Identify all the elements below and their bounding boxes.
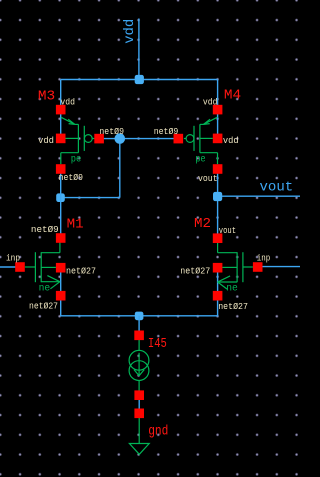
svg-text:pe: pe — [195, 155, 206, 166]
pin I45 top — [134, 331, 144, 341]
svg-text:vdd: vdd — [122, 19, 138, 44]
junction net09 drain — [56, 193, 65, 202]
pin M4 drain — [213, 164, 223, 174]
svg-text:netØ9: netØ9 — [31, 225, 59, 235]
pin I45 bottom — [134, 390, 144, 400]
svg-text:netØ27: netØ27 — [180, 266, 210, 276]
svg-text:vdd: vdd — [203, 98, 218, 108]
svg-text:inp: inp — [6, 253, 20, 263]
pin M1 gate — [15, 262, 25, 272]
svg-text:vdd: vdd — [223, 136, 239, 146]
wire tail net027 — [61, 296, 218, 316]
transistor M1 (nmos) — [25, 242, 60, 288]
pin M2 bulk — [213, 263, 223, 273]
wire M4 drain to M2 drain — [217, 169, 219, 238]
pin M1 drain — [56, 233, 66, 243]
wire tail to I45 — [138, 316, 140, 331]
svg-text:gnd: gnd — [148, 424, 168, 440]
svg-text:ne: ne — [39, 284, 51, 295]
wire inp left — [0, 266, 20, 268]
svg-text:vdd: vdd — [60, 98, 75, 108]
svg-text:netØ27: netØ27 — [66, 266, 96, 276]
pin M2 gate — [253, 262, 263, 272]
svg-text:M2: M2 — [194, 216, 211, 232]
svg-text:I45: I45 — [148, 336, 167, 352]
pin M2 drain — [213, 233, 223, 243]
svg-text:netØ9: netØ9 — [99, 127, 124, 137]
pin M3 gate — [94, 134, 104, 144]
current source I45 — [129, 340, 149, 391]
transistor M2 (nmos) — [218, 243, 253, 289]
wire net09 feedback vertical — [119, 139, 121, 198]
junction tail — [135, 312, 144, 321]
wire vdd drop right — [217, 80, 219, 139]
wire vdd drop left — [60, 80, 62, 139]
wire vdd rail — [61, 79, 218, 81]
svg-text:inp: inp — [257, 253, 271, 263]
svg-text:M3: M3 — [38, 89, 55, 105]
wire gate net09 — [99, 138, 178, 140]
svg-text:vout: vout — [260, 180, 294, 196]
svg-text:vdd: vdd — [38, 136, 54, 146]
svg-text:M4: M4 — [224, 88, 241, 104]
svg-text:netØ9: netØ9 — [59, 173, 83, 183]
wire net09 feedback horizontal — [61, 197, 120, 199]
svg-text:M1: M1 — [67, 216, 84, 232]
svg-text:netØ27: netØ27 — [29, 302, 58, 312]
wire vout — [218, 195, 300, 197]
wire M1 bulk to source — [60, 268, 62, 296]
svg-text:pe: pe — [71, 155, 82, 166]
pin M1 bulk — [56, 263, 66, 273]
wire vdd stem — [138, 19, 140, 80]
pin M1 source — [56, 291, 66, 301]
wire M3 drain to M1 drain — [60, 169, 62, 238]
pin gnd — [134, 409, 144, 419]
ground symbol — [129, 417, 149, 454]
pin M3 bulk — [56, 134, 66, 144]
junction vdd rail — [135, 75, 144, 84]
pin M4 gate — [174, 134, 184, 144]
pin M4 bulk — [213, 134, 223, 144]
transistor M4 (pmos) — [184, 117, 218, 164]
pin M3 source — [56, 105, 66, 115]
pin M3 drain — [56, 164, 66, 174]
transistor M3 (pmos) — [61, 117, 95, 164]
svg-text:ne: ne — [226, 284, 238, 295]
wire I45 to gnd pin — [138, 395, 140, 413]
junction net09 gate — [115, 133, 126, 144]
junction vout — [213, 192, 222, 201]
pin M4 source — [213, 105, 223, 115]
wire M2 bulk to source — [217, 268, 219, 296]
wire inp right — [258, 266, 300, 268]
svg-text:vout: vout — [219, 226, 236, 236]
svg-text:netØ27: netØ27 — [218, 302, 248, 312]
svg-text:netØ9: netØ9 — [154, 127, 179, 137]
svg-text:vout: vout — [198, 174, 218, 184]
pin M2 source — [213, 291, 223, 301]
